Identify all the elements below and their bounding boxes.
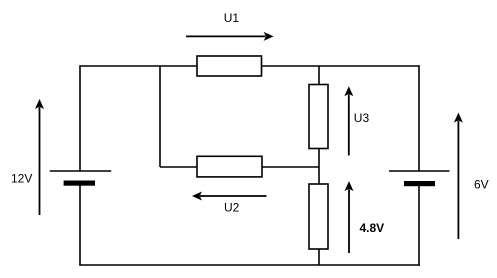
wire right branch upper — [418, 65, 420, 171]
battery B1 left 12V: short thick plate — [64, 181, 95, 186]
wire middle-right vertical branch — [318, 66, 320, 265]
resistor R4 (lower vertical) — [309, 184, 328, 249]
wire left branch lower — [79, 183, 81, 265]
resistor R1 (top horizontal) — [197, 56, 262, 76]
wire top (left loop top side) — [80, 65, 419, 67]
svg-text:6V: 6V — [474, 178, 489, 192]
resistor R2 (middle horizontal) — [197, 156, 262, 177]
wire bottom — [79, 264, 420, 266]
battery B2 right 6V: long plate — [389, 170, 450, 172]
wire right branch lower — [418, 183, 420, 266]
arrow 6V (points up) — [454, 113, 463, 239]
arrow U3 (points up) — [344, 86, 353, 155]
svg-text:4.8V: 4.8V — [360, 221, 385, 235]
wire middle horizontal — [160, 166, 319, 168]
wire inner vertical from top node to middle resistor — [159, 66, 161, 167]
battery B2 right 6V: short thick plate — [404, 181, 435, 186]
arrow U2 (points left) — [192, 192, 267, 201]
svg-text:U2: U2 — [224, 200, 240, 214]
battery B1 left 12V: long plate — [50, 170, 111, 172]
arrow 12V (points up) — [35, 99, 44, 215]
svg-text:12V: 12V — [11, 172, 32, 186]
arrow 4.8V (points up) — [345, 181, 354, 253]
svg-text:U1: U1 — [224, 11, 240, 25]
resistor R3 (upper vertical) — [309, 85, 328, 149]
svg-text:U3: U3 — [354, 111, 370, 125]
arrow U1 (points right) — [186, 32, 274, 41]
wire left branch upper — [79, 65, 81, 171]
